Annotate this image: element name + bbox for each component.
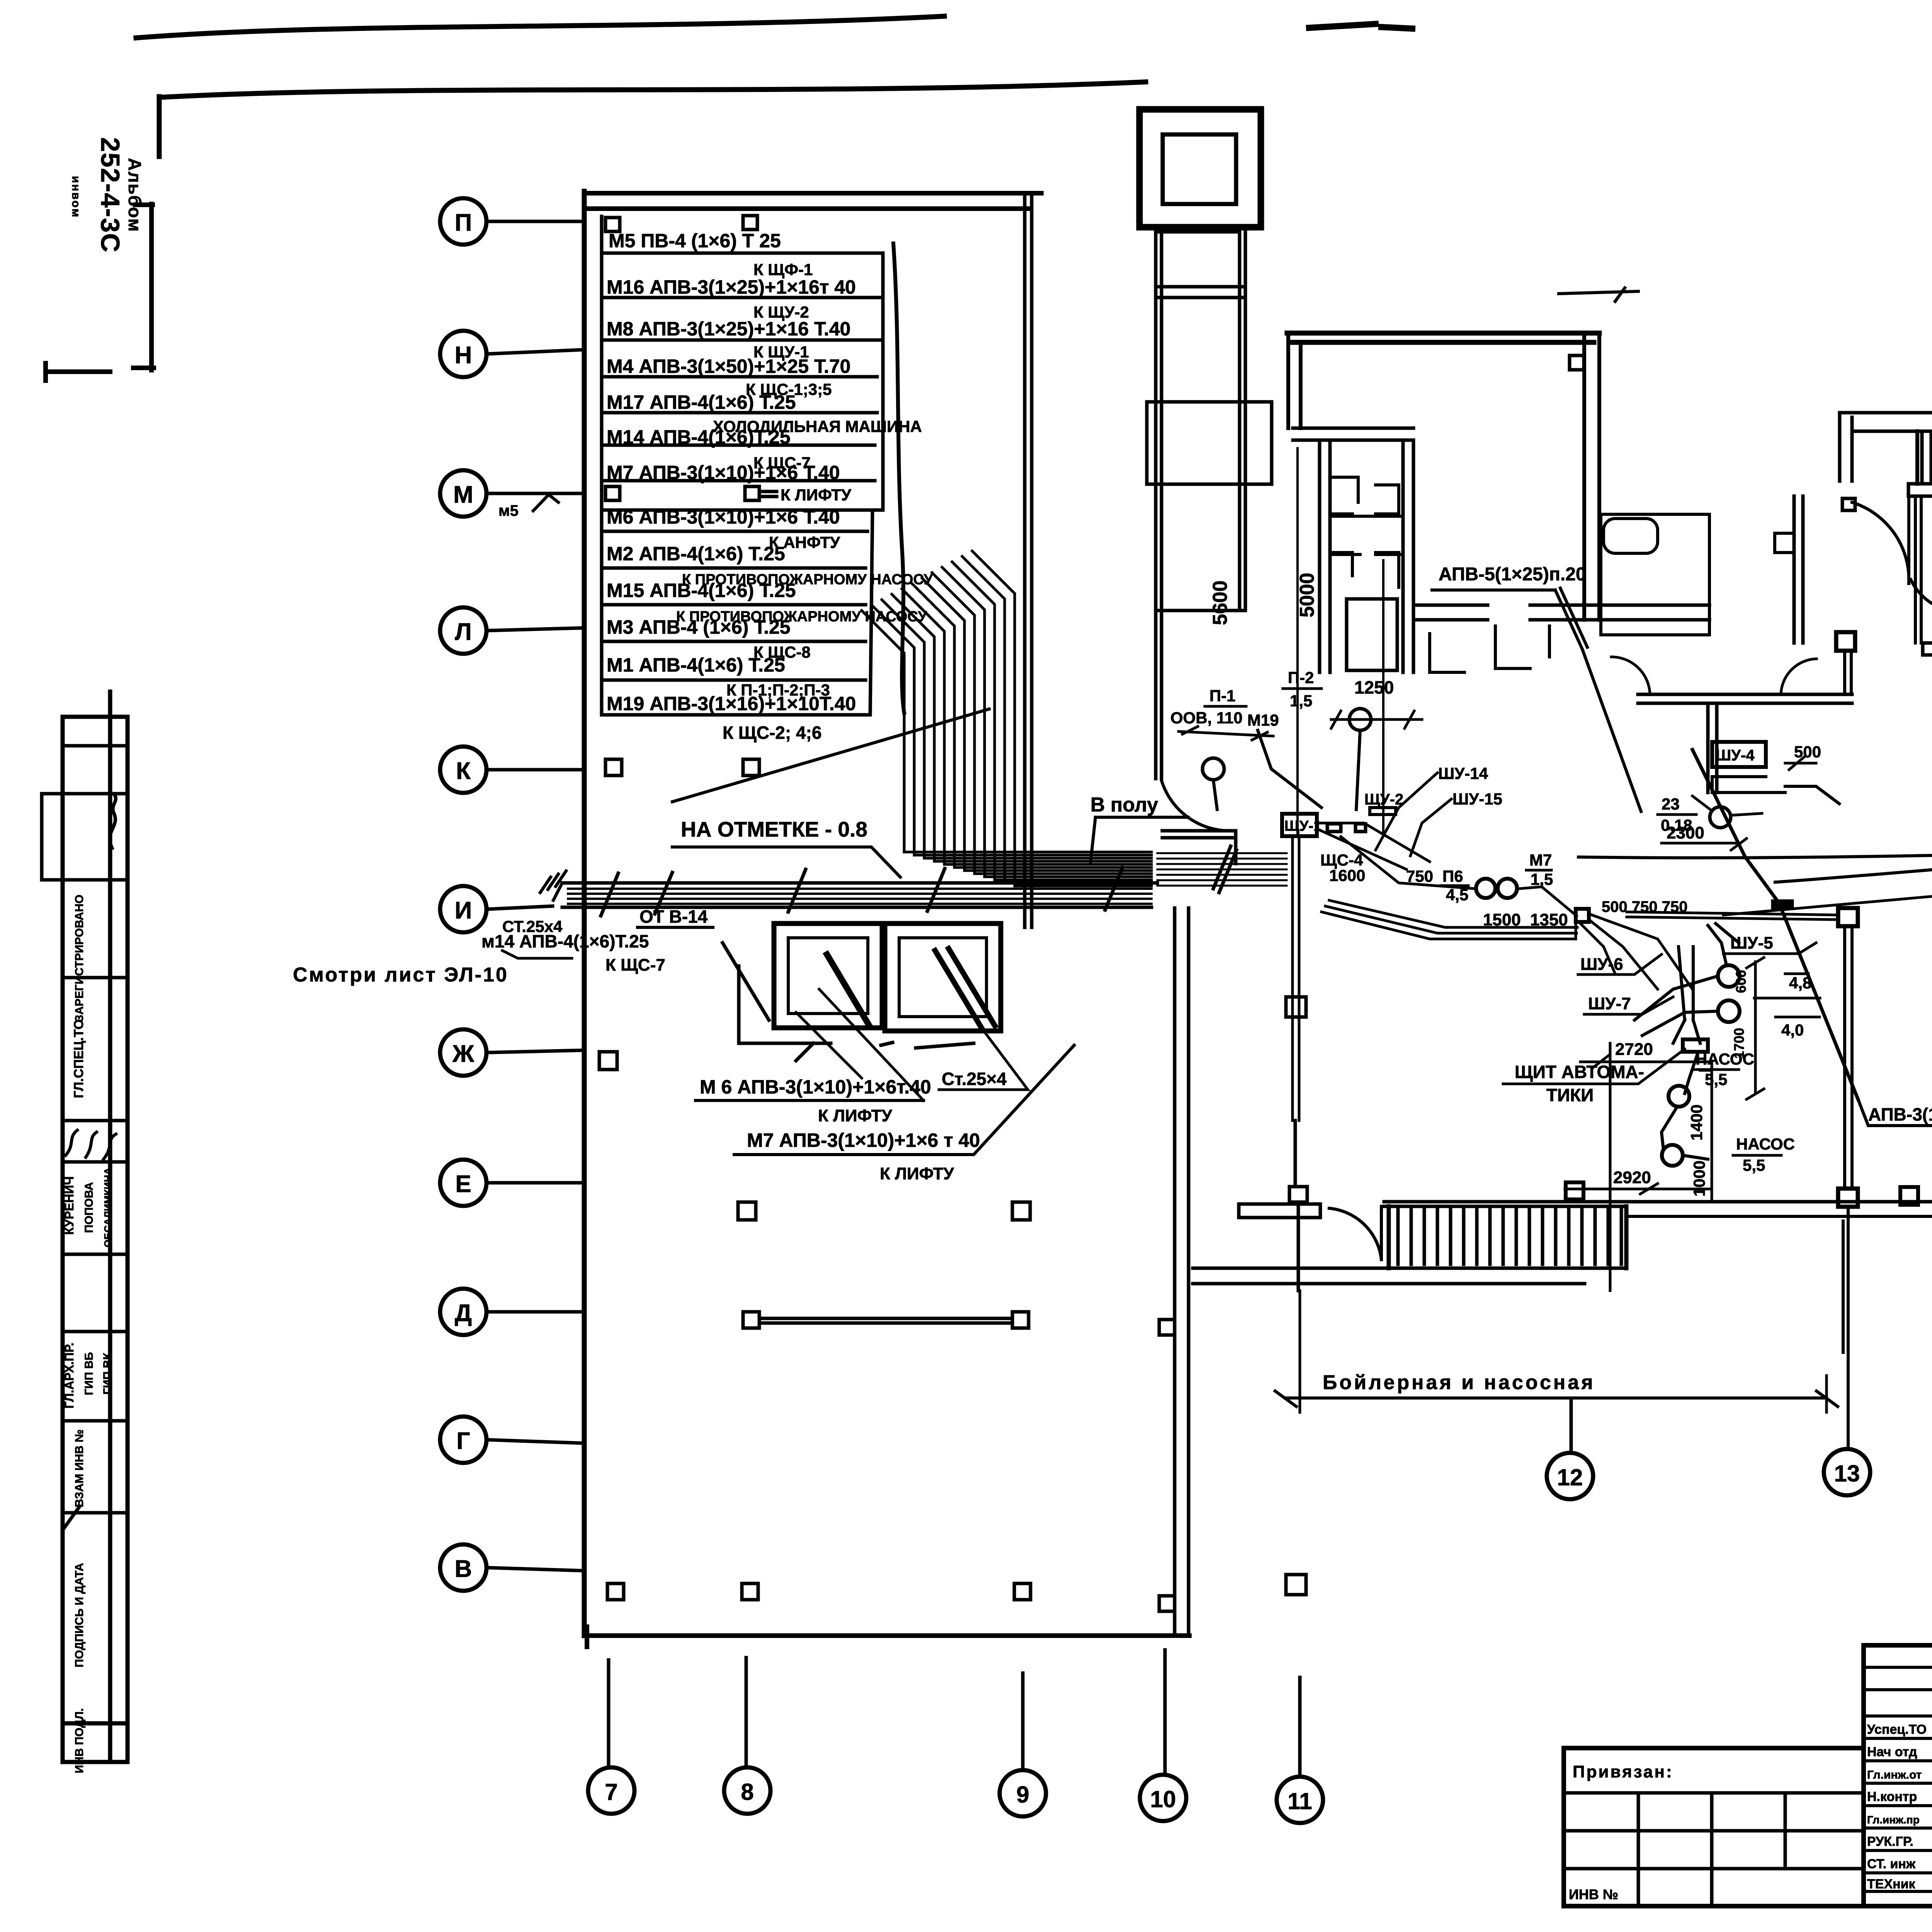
svg-text:В полу: В полу xyxy=(1090,794,1158,816)
m6 leader diagonal xyxy=(796,989,923,1100)
boilernaya ext lines xyxy=(1300,1291,1827,1412)
svg-text:4,0: 4,0 xyxy=(1781,1021,1804,1039)
svg-text:12: 12 xyxy=(1557,1464,1583,1490)
svg-text:ШУ-7: ШУ-7 xyxy=(1588,994,1631,1013)
svg-text:Альбом: Альбом xyxy=(125,158,145,233)
left building east wall upper xyxy=(1025,193,1032,927)
500 tick xyxy=(1785,757,1816,770)
wall under stairs xyxy=(1908,484,1932,496)
band slash center xyxy=(1213,846,1236,893)
st25x4 leader xyxy=(939,1028,1028,1090)
fan cross leader xyxy=(672,709,989,802)
wires to shu5 pumps xyxy=(1634,923,1739,1036)
axis circle 11 xyxy=(1277,1677,1323,1823)
axis circle E xyxy=(440,1160,584,1206)
svg-text:600: 600 xyxy=(1733,970,1749,993)
elevator shaft B inner xyxy=(899,938,986,1017)
row K liftu squares xyxy=(605,486,777,500)
axis circle N xyxy=(440,331,584,377)
scan artifact top dashes xyxy=(1309,24,1412,29)
long diagonal cable xyxy=(1692,750,1858,1100)
lamp circle 2 xyxy=(1202,758,1224,780)
svg-text:1000: 1000 xyxy=(1690,1160,1708,1196)
svg-text:Н: Н xyxy=(455,342,472,369)
terminal boxes xyxy=(1327,824,1366,832)
svg-text:9: 9 xyxy=(1016,1782,1029,1808)
margin bracket top tick xyxy=(135,202,153,207)
column square Zh row xyxy=(599,1052,617,1070)
svg-text:ОБСАЛИМКИНА: ОБСАЛИМКИНА xyxy=(102,1168,114,1248)
stub square left xyxy=(1842,498,1855,510)
svg-text:И: И xyxy=(455,897,472,924)
svg-text:1600: 1600 xyxy=(1329,866,1365,884)
center wc corridor walls xyxy=(1320,440,1413,672)
svg-text:М14 АПВ-4(1×6)Т.25: М14 АПВ-4(1×6)Т.25 xyxy=(607,426,791,448)
col13 line xyxy=(1845,926,1852,1189)
svg-text:23: 23 xyxy=(1662,795,1680,813)
shu-4 box xyxy=(1712,742,1766,767)
svg-text:ГИП ВК: ГИП ВК xyxy=(101,1352,114,1395)
axis circle P xyxy=(440,198,584,245)
svg-text:13: 13 xyxy=(1834,1461,1860,1486)
svg-text:м5: м5 xyxy=(498,502,519,519)
svg-text:2300: 2300 xyxy=(1667,823,1704,842)
svg-text:1,5: 1,5 xyxy=(1290,692,1312,710)
svg-text:10: 10 xyxy=(1150,1786,1176,1812)
left stamp strip cell lines xyxy=(42,746,128,1513)
svg-text:ГЛ.СПЕЦ.ТО: ГЛ.СПЕЦ.ТО xyxy=(71,1019,86,1098)
shchit underline leader xyxy=(1503,1049,1685,1084)
hall south wall left xyxy=(1413,605,1584,620)
svg-text:К ЛИФТУ: К ЛИФТУ xyxy=(818,1106,892,1125)
privyazan rows xyxy=(1564,1793,1864,1869)
curve to pump mid xyxy=(1685,1052,1698,1094)
stairs hatch xyxy=(1398,1209,1621,1264)
pump circles pair xyxy=(1476,879,1495,898)
stairs side walls xyxy=(1389,1206,1626,1268)
left building west wall xyxy=(582,191,587,1636)
shu-5 pumps xyxy=(1718,965,1740,987)
svg-text:П-2: П-2 xyxy=(1288,668,1314,687)
svg-text:ПОПОВА: ПОПОВА xyxy=(83,1182,95,1233)
svg-text:К ЩС-2; 4;6: К ЩС-2; 4;6 xyxy=(723,723,821,743)
stamp slash xyxy=(63,1507,79,1530)
svg-text:АПВ-3(1×4) п.20: АПВ-3(1×4) п.20 xyxy=(1868,1104,1932,1124)
center west step wall xyxy=(1293,428,1413,440)
corridor wide room xyxy=(1147,402,1272,484)
shaft bottom ticks xyxy=(881,1043,974,1048)
shaft approach walls xyxy=(723,943,831,1061)
col13 upper square xyxy=(1836,632,1855,651)
band left stub hatch xyxy=(540,871,566,900)
svg-text:М5 ПВ-4 (1×6) Т 25: М5 ПВ-4 (1×6) Т 25 xyxy=(609,230,781,252)
junction box xyxy=(1576,909,1589,922)
svg-text:П6: П6 xyxy=(1442,867,1463,885)
margin bracket xyxy=(46,204,154,381)
svg-text:В: В xyxy=(455,1556,472,1582)
south rooms partitions xyxy=(1430,626,1549,672)
svg-text:М1 АПВ-4(1×6) Т.25: М1 АПВ-4(1×6) Т.25 xyxy=(607,654,785,676)
svg-text:М2 АПВ-4(1×6) Т.25: М2 АПВ-4(1×6) Т.25 xyxy=(607,543,785,565)
ShchU-1 box xyxy=(1282,814,1317,836)
bundle bend down xyxy=(1580,914,1692,989)
col13 upper line xyxy=(1845,651,1851,694)
shu-7 box xyxy=(1683,1039,1708,1052)
right stairs hatch xyxy=(1922,434,1932,483)
long diag approach xyxy=(1723,878,1932,915)
band to col13 xyxy=(1627,912,1838,920)
svg-text:ИНВ ПОДЛ.: ИНВ ПОДЛ. xyxy=(73,1708,86,1774)
svg-text:Гл.инж.от: Гл.инж.от xyxy=(1867,1769,1922,1781)
room below stairs west wall xyxy=(1915,498,1921,643)
elevator shaft B outer xyxy=(885,923,1001,1031)
tower outer square xyxy=(1139,109,1261,227)
stamp strip signature scribble xyxy=(110,796,116,848)
left stamp strip top xyxy=(63,715,128,719)
m1 second line xyxy=(1775,855,1932,882)
column 11 stub xyxy=(1289,1121,1307,1291)
wc fixtures xyxy=(1332,477,1399,587)
svg-text:М7: М7 xyxy=(1529,851,1552,869)
m7 underline xyxy=(734,1045,1074,1155)
svg-text:П: П xyxy=(455,209,472,236)
stray line right top xyxy=(1559,288,1638,301)
elevator shaft B diagonals xyxy=(935,949,995,1028)
tower corridor west wall xyxy=(1156,232,1162,611)
table bracket curve xyxy=(893,243,904,713)
svg-text:М8 АПВ-3(1×25)+1×16 Т.40: М8 АПВ-3(1×25)+1×16 Т.40 xyxy=(607,318,850,340)
axis circle M xyxy=(440,470,584,519)
m1 long line xyxy=(1578,851,1932,858)
svg-text:5600: 5600 xyxy=(1209,580,1231,625)
svg-text:Ж: Ж xyxy=(452,1041,474,1067)
svg-text:РУК.ГР.: РУК.ГР. xyxy=(1867,1834,1913,1849)
lamp vertical xyxy=(1356,730,1360,810)
stamp scribbles row xyxy=(66,1130,116,1159)
title table outer xyxy=(1864,1645,1932,1906)
svg-text:НА ОТМЕТКЕ - 0.8: НА ОТМЕТКЕ - 0.8 xyxy=(681,817,867,841)
center hall corner square xyxy=(1570,355,1584,370)
room wall mid xyxy=(1923,643,1932,655)
stairs left ledge xyxy=(1239,1204,1320,1218)
svg-text:М 6 АПВ-3(1×10)+1×6т.40: М 6 АПВ-3(1×10)+1×6т.40 xyxy=(700,1076,931,1098)
right bldg stairs top wall xyxy=(1840,413,1932,434)
pump circle low xyxy=(1662,1145,1683,1166)
svg-text:П-1: П-1 xyxy=(1209,687,1236,705)
axis circle 13 xyxy=(1824,1449,1870,1495)
col13 below xyxy=(1843,1207,1848,1447)
center hall west wall xyxy=(1288,333,1301,428)
dim 1250 line xyxy=(1331,711,1422,728)
svg-text:Е: Е xyxy=(455,1171,471,1197)
upper room partition xyxy=(1794,496,1803,643)
svg-text:252-4-3C: 252-4-3C xyxy=(95,137,125,253)
scan artifact top line 2 xyxy=(159,82,1146,97)
stairs door arc xyxy=(1329,1206,1381,1260)
cable table frame xyxy=(602,216,883,715)
stairs bound left xyxy=(1915,431,1919,484)
cable table row lines xyxy=(602,253,883,715)
svg-text:М15 АПВ-4(1×6) Т.25: М15 АПВ-4(1×6) Т.25 xyxy=(607,580,796,601)
svg-text:К ЩФ-1: К ЩФ-1 xyxy=(753,260,813,279)
column squares K row xyxy=(605,759,759,776)
svg-text:2720: 2720 xyxy=(1615,1040,1653,1059)
axis circle Zh xyxy=(440,1029,584,1076)
axis circle L xyxy=(440,607,584,654)
svg-text:М: М xyxy=(453,481,473,508)
axis circle 10 xyxy=(1140,1650,1186,1821)
svg-text:инвом: инвом xyxy=(70,176,82,218)
shu drop lines xyxy=(1673,947,1700,1043)
center hall north wall xyxy=(1287,333,1599,342)
svg-text:Ст.25×4: Ст.25×4 xyxy=(942,1069,1007,1089)
door arcs lower xyxy=(1611,657,1816,694)
svg-text:Г: Г xyxy=(456,1428,470,1454)
apv-5 underline xyxy=(1432,588,1555,592)
cable fan bundle xyxy=(862,551,1151,886)
svg-text:ШУ-15: ШУ-15 xyxy=(1452,790,1502,808)
column squares V row xyxy=(607,1583,1031,1600)
partition jog xyxy=(1775,533,1794,553)
left building north wall xyxy=(584,193,1041,209)
svg-text:ГЛ.АРХ.ПР.: ГЛ.АРХ.ПР. xyxy=(62,1343,76,1409)
svg-text:К: К xyxy=(456,758,471,784)
svg-text:Успец.ТО: Успец.ТО xyxy=(1867,1722,1927,1737)
left building south wall xyxy=(584,1627,1189,1647)
ShchU-2 box xyxy=(1370,808,1396,815)
hall inner room xyxy=(1601,514,1709,635)
svg-text:ВЗАМ ИНВ №: ВЗАМ ИНВ № xyxy=(73,1429,86,1507)
stairs bottom band xyxy=(1193,1268,1626,1284)
corridor door arc xyxy=(1162,781,1233,831)
left stamp strip outer xyxy=(63,692,128,1762)
cable band into center xyxy=(1157,853,1287,886)
tower inner square xyxy=(1163,134,1236,204)
m19 drop xyxy=(1213,730,1321,810)
svg-text:ЩУ-2: ЩУ-2 xyxy=(1364,791,1403,808)
left building east wall lower xyxy=(1175,908,1189,1633)
svg-text:СТ. инж: СТ. инж xyxy=(1867,1857,1916,1871)
svg-text:К ЛИФТУ: К ЛИФТУ xyxy=(880,1164,954,1183)
column squares top row xyxy=(605,216,757,231)
door arcs entry xyxy=(1852,496,1909,583)
pump circle mid xyxy=(1668,1086,1689,1107)
right bldg bottom wall xyxy=(1626,1214,1932,1218)
corridor cable band xyxy=(562,881,1157,885)
ot v-14 underline xyxy=(638,926,713,929)
scan artifact corner tick xyxy=(157,97,162,156)
corridor lower extension xyxy=(1156,611,1162,779)
axis circle 9 xyxy=(1000,1673,1046,1816)
svg-text:ТИКИ: ТИКИ xyxy=(1546,1085,1594,1105)
svg-text:5000: 5000 xyxy=(1296,573,1318,617)
svg-text:Гл.инж.пр: Гл.инж.пр xyxy=(1867,1814,1920,1826)
curve to low pump xyxy=(1662,1107,1708,1159)
svg-text:Нач отд: Нач отд xyxy=(1867,1745,1917,1759)
junction sq at stairs xyxy=(1566,1182,1583,1199)
dim vert line xyxy=(1747,957,1764,1099)
svg-text:М16 АПВ-3(1×25)+1×16т 40: М16 АПВ-3(1×25)+1×16т 40 xyxy=(607,276,856,298)
hall south wall xyxy=(1584,605,1709,620)
column squares E row xyxy=(738,1202,1030,1220)
m6 underline xyxy=(696,1099,923,1102)
bottom wall col squares xyxy=(1900,1187,1932,1205)
cluster wiring xyxy=(1317,823,1577,916)
svg-text:НАСОС: НАСОС xyxy=(1736,1135,1795,1153)
band to junction xyxy=(1321,900,1577,939)
corridor mouth walls xyxy=(1162,831,1236,864)
svg-text:КУРЕНИЧ: КУРЕНИЧ xyxy=(62,1176,76,1235)
svg-text:ТЕХник: ТЕХник xyxy=(1867,1877,1916,1891)
svg-text:11: 11 xyxy=(1287,1788,1312,1814)
axis circle 8 xyxy=(724,1658,770,1814)
wc partitions extra xyxy=(1330,516,1403,554)
na otmetke underline xyxy=(672,847,900,877)
svg-text:1700: 1700 xyxy=(1731,1028,1747,1059)
svg-text:М19 АПВ-3(1×16)+1×10Т.40: М19 АПВ-3(1×16)+1×10Т.40 xyxy=(607,693,856,714)
svg-text:К ЩС-7: К ЩС-7 xyxy=(605,956,665,975)
svg-text:ЩУ-1: ЩУ-1 xyxy=(1284,818,1321,834)
svg-text:ИНВ №: ИНВ № xyxy=(1569,1886,1618,1902)
svg-text:5,5: 5,5 xyxy=(1743,1156,1765,1174)
column squares D row with tie xyxy=(743,1312,1029,1328)
svg-text:ЗАРЕГИСТРИРОВАНО: ЗАРЕГИСТРИРОВАНО xyxy=(73,895,86,1022)
svg-text:Н.контр: Н.контр xyxy=(1867,1789,1917,1804)
center lower stairs top wall xyxy=(1384,1202,1932,1206)
m14 leader xyxy=(502,951,572,958)
svg-text:1400: 1400 xyxy=(1687,1104,1706,1140)
svg-text:1250: 1250 xyxy=(1354,677,1394,697)
svg-text:М7 АПВ-3(1×10)+1×6 Т.40: М7 АПВ-3(1×10)+1×6 Т.40 xyxy=(607,462,840,483)
small box on m1 xyxy=(1771,900,1794,910)
bath fixture xyxy=(1604,519,1658,553)
svg-text:ШУ-4: ШУ-4 xyxy=(1716,747,1755,764)
svg-text:7: 7 xyxy=(605,1779,617,1805)
svg-text:8: 8 xyxy=(741,1779,753,1805)
svg-text:М17 АПВ-4(1×6) Т.25: М17 АПВ-4(1×6) Т.25 xyxy=(607,391,796,413)
lamp near shu4 xyxy=(1710,807,1731,828)
svg-text:ПОДПИСЬ И ДАТА: ПОДПИСЬ И ДАТА xyxy=(73,1563,86,1667)
svg-text:М7 АПВ-3(1×10)+1×6 т 40: М7 АПВ-3(1×10)+1×6 т 40 xyxy=(747,1129,980,1151)
col13 top square xyxy=(1838,908,1858,926)
corridor rungs xyxy=(1156,232,1245,611)
svg-text:Привязан:: Привязан: xyxy=(1573,1762,1673,1781)
svg-text:2920: 2920 xyxy=(1613,1168,1651,1187)
tower corridor east wall xyxy=(1240,232,1245,611)
svg-text:М3 АПВ-4 (1×6) Т.25: М3 АПВ-4 (1×6) Т.25 xyxy=(607,616,791,638)
riser squares xyxy=(1286,997,1306,1595)
svg-text:ГИП ВБ: ГИП ВБ xyxy=(83,1352,95,1395)
svg-text:М4 АПВ-3(1×50)+1×25 Т.70: М4 АПВ-3(1×50)+1×25 Т.70 xyxy=(607,355,850,377)
svg-text:М6 АПВ-3(1×10)+1×6 Т.40: М6 АПВ-3(1×10)+1×6 Т.40 xyxy=(607,506,840,528)
scan artifact top line 1 xyxy=(136,16,944,38)
wall over shu4 xyxy=(1638,694,1852,793)
boilernaya dim line xyxy=(1275,1391,1838,1406)
lamp circle 1 xyxy=(1349,709,1371,730)
svg-text:ЩИТ АВТОМА-: ЩИТ АВТОМА- xyxy=(1515,1062,1644,1082)
wall bumps lower east xyxy=(1159,1320,1175,1611)
svg-text:5,5: 5,5 xyxy=(1705,1070,1727,1088)
v polu leader xyxy=(1090,817,1188,864)
apv-5 drop diagonal xyxy=(1555,588,1641,811)
privyazan table outer xyxy=(1564,1748,1864,1906)
svg-text:АПВ-5(1×25)п.20: АПВ-5(1×25)п.20 xyxy=(1439,564,1586,585)
svg-text:ШУ-6: ШУ-6 xyxy=(1580,955,1623,974)
col13 bottom square xyxy=(1838,1189,1858,1207)
shu-5 underline xyxy=(1723,943,1816,954)
axis circle V xyxy=(440,1544,584,1591)
axis circle 12 xyxy=(1547,1399,1593,1499)
svg-text:Смотри лист ЭЛ-10: Смотри лист ЭЛ-10 xyxy=(293,964,509,986)
long riser x3352 xyxy=(1293,838,1299,1121)
dim ticks near p1 xyxy=(1179,726,1273,740)
apv 1x4 label leader xyxy=(1858,1100,1932,1126)
privyazan cols xyxy=(1638,1793,1785,1906)
axis circle I xyxy=(440,886,553,932)
axis circle D xyxy=(440,1289,584,1335)
svg-text:М19: М19 xyxy=(1247,711,1279,729)
elevator shaft A inner xyxy=(788,938,868,1014)
svg-text:м14 АПВ-4(1×6)Т.25: м14 АПВ-4(1×6)Т.25 xyxy=(481,931,649,951)
band hatch ticks xyxy=(601,867,1122,916)
shu4 below walls xyxy=(1712,777,1839,804)
svg-text:ОТ В-14: ОТ В-14 xyxy=(639,906,708,927)
svg-text:Бойлерная и насосная: Бойлерная и насосная xyxy=(1323,1371,1595,1394)
svg-text:Л: Л xyxy=(455,619,472,645)
left rows grid xyxy=(1864,1667,1932,1891)
svg-text:500: 500 xyxy=(1794,743,1821,761)
shu-14 leaders xyxy=(1376,773,1451,856)
axis circle K xyxy=(440,747,584,793)
svg-text:К ЛИФТУ: К ЛИФТУ xyxy=(781,486,852,504)
2720 dim xyxy=(1580,1043,1712,1291)
center hall east wall xyxy=(1584,333,1599,620)
svg-text:ШУ-14: ШУ-14 xyxy=(1438,764,1488,782)
elevator shaft A outer xyxy=(774,923,882,1028)
svg-text:ООВ, 110: ООВ, 110 xyxy=(1170,709,1243,727)
right bldg top-left stub xyxy=(1840,413,1852,481)
dim line vertical x3360 xyxy=(1298,448,1383,835)
left stamp strip bottom xyxy=(63,1723,128,1762)
svg-text:Д: Д xyxy=(455,1300,472,1327)
dim lines low xyxy=(1565,1062,1712,1202)
axis circle 7 xyxy=(588,1660,634,1814)
axis circle G xyxy=(440,1417,584,1463)
elevator shaft A diagonal xyxy=(827,954,869,1026)
wc room rect xyxy=(1347,599,1397,670)
